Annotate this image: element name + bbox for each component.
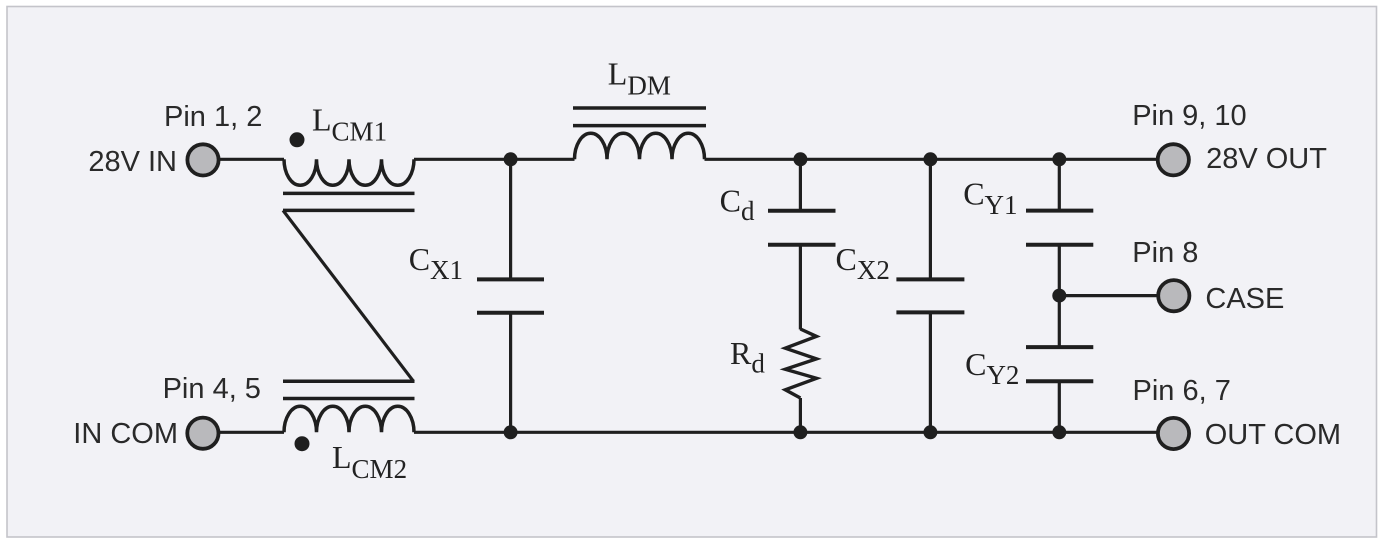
phase dot LCM2 (295, 436, 310, 451)
svg-text:CASE: CASE (1205, 283, 1284, 315)
terminal Pin 1,2 28V IN (187, 144, 218, 175)
inductor LDM core bar 2 (573, 124, 706, 128)
wire CX2 branch lower (929, 312, 932, 432)
wire CX1 branch lower (509, 313, 512, 433)
svg-text:Pin 9, 10: Pin 9, 10 (1132, 100, 1246, 132)
wire CASE tap (1059, 294, 1160, 297)
inductor LCM1 winding (284, 159, 414, 185)
junction top CY1 (1052, 152, 1066, 166)
wire Cd branch upper (799, 159, 802, 211)
capacitor CX1 plates (477, 277, 544, 281)
svg-text:Pin 6, 7: Pin 6, 7 (1133, 375, 1231, 407)
junction top CX2 (923, 152, 937, 166)
wire top-in stub (216, 158, 284, 161)
capacitor CX2 plates (896, 277, 964, 281)
svg-text:IN COM: IN COM (73, 418, 178, 450)
resistor Rd zigzag (785, 329, 816, 398)
inductor LCM1 core bar 2 (283, 209, 415, 213)
capacitor Cd plates (768, 209, 836, 213)
svg-text:28V OUT: 28V OUT (1206, 143, 1327, 175)
inductor LCM2 winding (284, 406, 414, 432)
wire CX1 branch upper (509, 159, 512, 279)
terminal Pin 8 CASE (1158, 280, 1189, 311)
wire CX2 branch upper (929, 159, 932, 279)
wire bottom rail (414, 431, 1160, 434)
inductor LCM2 core bar 1 (283, 380, 415, 384)
junction bottom CY2 (1052, 425, 1066, 439)
wire Cd-Rd link (799, 245, 802, 330)
junction CASE tap (1052, 289, 1066, 303)
svg-text:OUT COM: OUT COM (1205, 419, 1341, 451)
wire top middle (LCM1 to LDM) (414, 158, 575, 161)
wire bottom-in stub (216, 431, 284, 434)
inductor LDM winding (575, 133, 705, 159)
svg-text:Pin 1, 2: Pin 1, 2 (164, 101, 262, 133)
svg-text:Pin 8: Pin 8 (1132, 237, 1198, 269)
junction bottom Rd (793, 425, 807, 439)
wire CY1 branch upper (1058, 159, 1061, 210)
capacitor CY1 plates (1026, 209, 1093, 213)
wire top right (LDM to 28V OUT) (705, 158, 1161, 161)
junction bottom CX2 (923, 425, 937, 439)
capacitor CY2 plates (1026, 345, 1093, 349)
junction top CX1 (504, 152, 518, 166)
inductor LCM2 core bar 2 (283, 397, 415, 401)
terminal Pin 4,5 IN COM (187, 418, 218, 449)
svg-text:28V IN: 28V IN (88, 146, 177, 178)
junction bottom CX1 (504, 425, 518, 439)
terminal Pin 6,7 OUT COM (1158, 418, 1189, 449)
inductor LDM core bar 1 (573, 106, 706, 110)
junction top Cd (793, 152, 807, 166)
coupling diagonal (283, 210, 414, 381)
wire CY1-CY2 link (1058, 245, 1061, 347)
wire CY2 lower (1058, 381, 1061, 432)
terminal Pin 9,10 28V OUT (1158, 144, 1189, 175)
phase dot LCM1 (290, 132, 305, 147)
wire Rd lower (799, 398, 802, 432)
inductor LCM1 core bar 1 (283, 192, 415, 196)
svg-text:Pin 4, 5: Pin 4, 5 (163, 373, 261, 405)
